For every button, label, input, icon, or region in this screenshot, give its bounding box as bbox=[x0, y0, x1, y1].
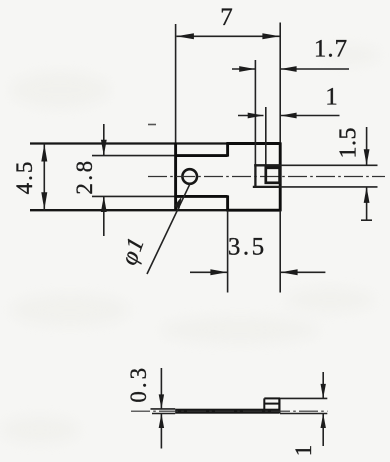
svg-text:1.5: 1.5 bbox=[336, 127, 362, 159]
svg-text:7: 7 bbox=[220, 4, 233, 31]
svg-text:φ1: φ1 bbox=[116, 233, 150, 268]
svg-text:1: 1 bbox=[325, 83, 338, 110]
svg-text:4.5: 4.5 bbox=[12, 160, 37, 195]
svg-text:1: 1 bbox=[291, 445, 316, 457]
svg-text:3.5: 3.5 bbox=[228, 233, 267, 260]
svg-text:2.8: 2.8 bbox=[72, 158, 97, 194]
svg-text:1.7: 1.7 bbox=[314, 36, 348, 63]
svg-text:0.3: 0.3 bbox=[126, 365, 151, 403]
